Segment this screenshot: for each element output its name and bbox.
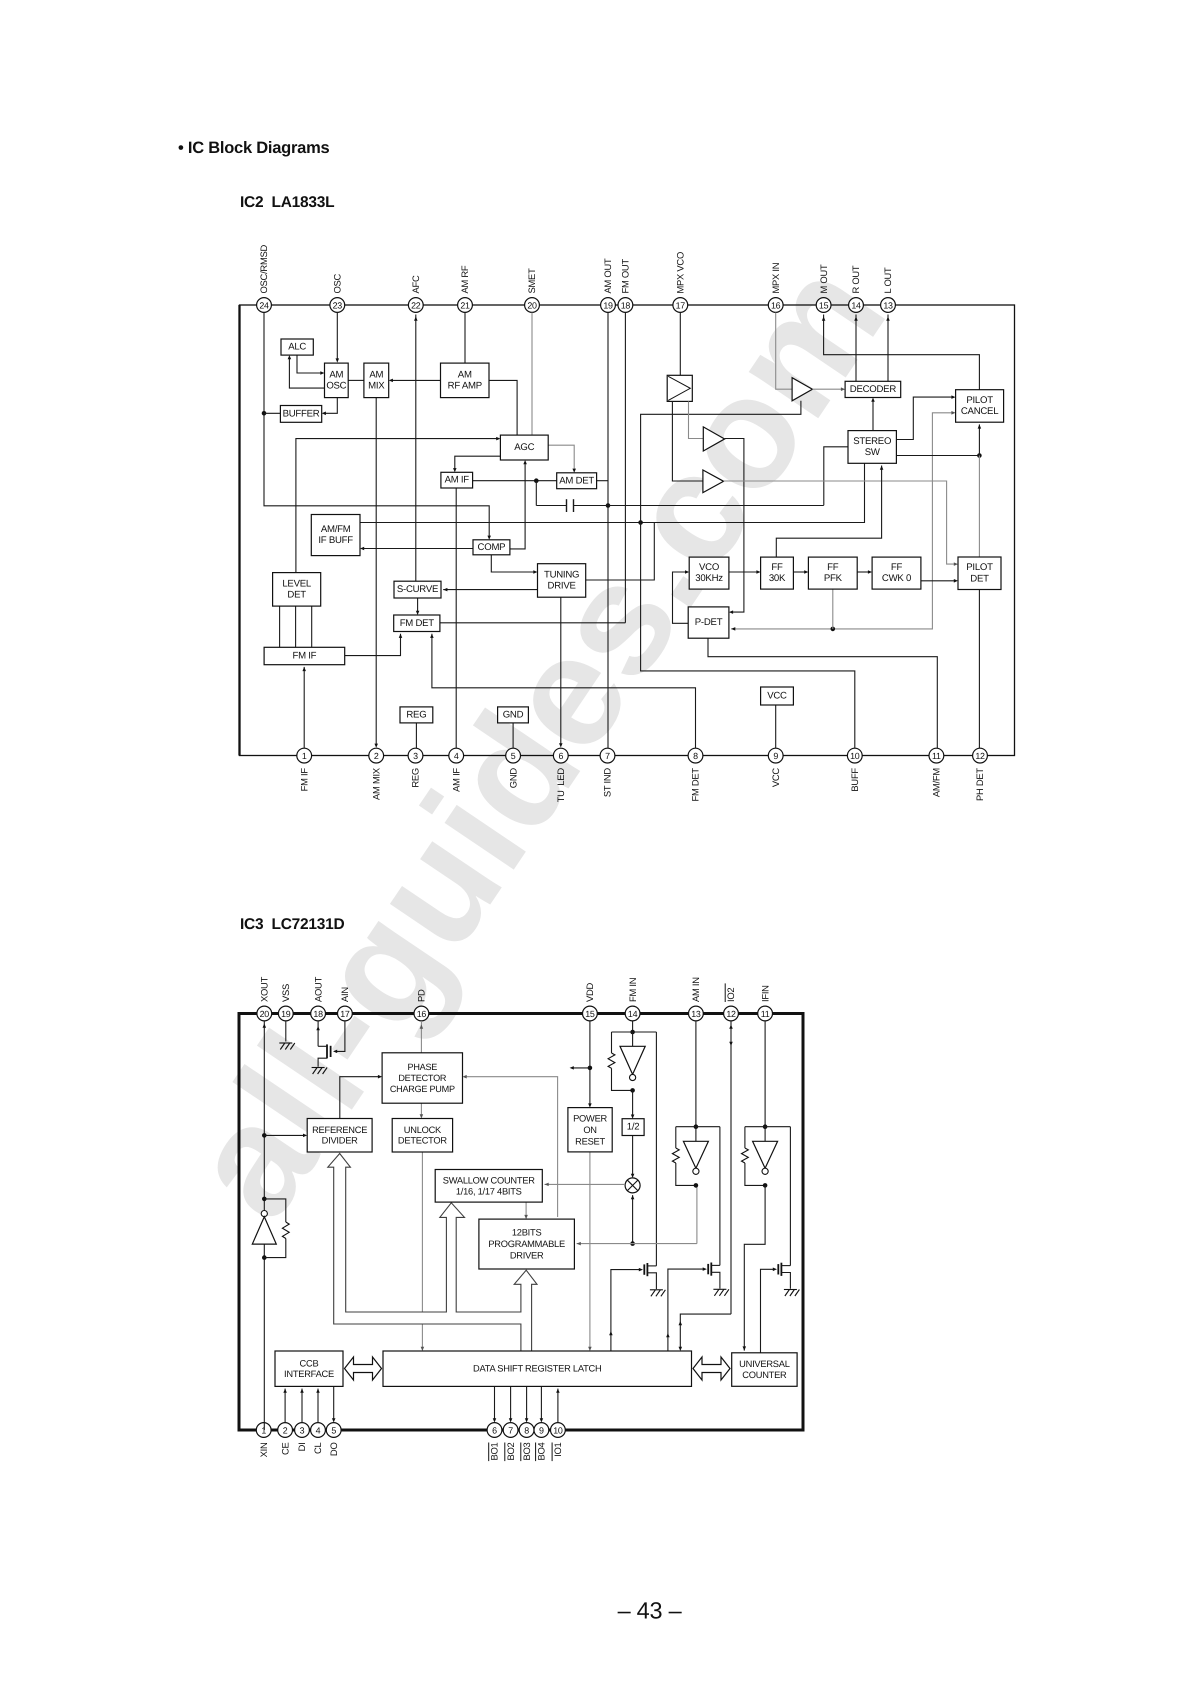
svg-text:CE: CE: [279, 1443, 290, 1456]
IC3 pin 15 VDD: [583, 982, 598, 1020]
IC3 pin 1 XIN: [256, 1423, 271, 1458]
wire P-DET to VCO feedback: [673, 572, 689, 623]
svg-text:PFK: PFK: [824, 573, 843, 584]
block FF CWK 0: [872, 557, 921, 589]
svg-text:R OUT: R OUT: [850, 265, 861, 293]
svg-text:FM IF: FM IF: [293, 651, 317, 662]
svg-text:19: 19: [281, 1009, 291, 1019]
FMIN input resistor R2: [611, 1032, 613, 1053]
wire S-CURVE to FM DET: [417, 598, 419, 613]
wire to REFERENCE DIVIDER: [264, 1134, 305, 1136]
svg-text:17: 17: [340, 1009, 350, 1019]
svg-text:CWK 0: CWK 0: [882, 573, 911, 584]
IC2 pin 17 MPX VCO: [673, 252, 688, 312]
block SWALLOW COUNTER: [435, 1170, 542, 1203]
IC3 pin 17 AIN: [338, 987, 353, 1021]
IC3 pin 6 BO1: [487, 1423, 502, 1462]
svg-text:20: 20: [260, 1009, 270, 1019]
svg-text:1/16, 1/17 4BITS: 1/16, 1/17 4BITS: [456, 1186, 522, 1196]
svg-text:FM IN: FM IN: [627, 978, 638, 1002]
block AM RF AMP: [441, 363, 490, 398]
svg-text:GND: GND: [503, 709, 524, 720]
svg-text:VCC: VCC: [770, 768, 781, 788]
svg-text:GND: GND: [507, 768, 518, 789]
svg-text:BO2: BO2: [505, 1442, 516, 1460]
svg-text:FF: FF: [827, 562, 839, 573]
IC3 pin 12 IO2: [724, 983, 739, 1020]
capacitor C on composite rail: [536, 505, 566, 507]
wire pin16 PD to PHASE DETECTOR: [420, 1021, 422, 1053]
svg-text:PROGRAMMABLE: PROGRAMMABLE: [488, 1239, 565, 1249]
wire DECODER to pin14 R OUT: [855, 315, 857, 382]
svg-text:OSC: OSC: [326, 380, 346, 391]
svg-text:AM DET: AM DET: [559, 475, 594, 486]
svg-text:– 43 –: – 43 –: [618, 1598, 683, 1624]
IC2 pin 21 AM RF: [458, 265, 473, 312]
svg-text:14: 14: [628, 1009, 638, 1019]
wire pin17 to MPX VCO: [679, 313, 681, 376]
svg-text:9: 9: [773, 751, 778, 761]
wire UNLOCK DET down to DATA SHIFT: [421, 1152, 423, 1349]
wire UC to FET T3 gate: [761, 1269, 775, 1353]
svg-text:9: 9: [539, 1426, 544, 1436]
block FF PFK: [808, 557, 857, 589]
svg-text:PHASE: PHASE: [408, 1062, 438, 1072]
AMIN resistor R3: [675, 1127, 677, 1148]
IC2 pin 16 MPX IN: [768, 263, 783, 313]
block REFERENCE DIVIDER: [307, 1119, 372, 1153]
svg-text:XIN: XIN: [258, 1443, 269, 1458]
block 1/2 divider: [622, 1119, 644, 1136]
svg-text:FM OUT: FM OUT: [620, 259, 631, 294]
wire PHASE DET feedback from 12BITS (grey): [465, 1077, 558, 1217]
IC3 pin 5 DO: [326, 1423, 341, 1456]
wire PHASE DET to UNLOCK DET (grey): [420, 1103, 422, 1116]
wire REG to pin3: [415, 723, 417, 748]
block FM IF: [264, 647, 345, 664]
svg-text:IC2 LA1833L: IC2 LA1833L: [240, 194, 334, 211]
svg-text:2: 2: [283, 1426, 288, 1436]
block FM DET: [394, 615, 440, 632]
svg-text:COUNTER: COUNTER: [742, 1370, 787, 1380]
pin12 IO2 line: [730, 1021, 732, 1314]
svg-text:30KHz: 30KHz: [695, 573, 723, 584]
wire to 1/2 divider: [632, 1090, 634, 1116]
wire A2 composite to PILOT DET (grey): [724, 481, 956, 564]
wire AM IF to pin4: [455, 488, 457, 748]
block PILOT CANCEL: [956, 390, 1004, 423]
svg-text:FM DET: FM DET: [400, 618, 435, 629]
svg-text:8: 8: [524, 1426, 529, 1436]
IC2 pin 20 SMET: [525, 268, 540, 312]
wire AM OSC to BUFFER: [324, 398, 337, 414]
svg-text:AM IN: AM IN: [690, 977, 701, 1002]
block AM MIX: [364, 363, 389, 398]
FET T3: [773, 1268, 777, 1272]
svg-text:13: 13: [691, 1009, 701, 1019]
block LEVEL DET: [273, 573, 321, 607]
IC3 pin 14 FM IN: [625, 978, 640, 1021]
wire TUNING DRIVE to S-CURVE: [443, 589, 537, 591]
block PHASE DETECTOR CHARGE PUMP: [382, 1053, 462, 1103]
wire pin14 FMIN network: [632, 1021, 634, 1032]
buffer amp A2: [703, 470, 724, 493]
svg-text:DRIVE: DRIVE: [548, 581, 576, 592]
svg-text:15: 15: [585, 1009, 595, 1019]
wire LEVEL DET - FM IF links: [279, 606, 281, 647]
svg-text:AM RF: AM RF: [459, 265, 470, 293]
block AM IF: [441, 472, 473, 488]
ground AIN FET: [312, 1068, 328, 1075]
svg-text:15: 15: [819, 301, 829, 311]
block DATA SHIFT REGISTER LATCH: [383, 1351, 692, 1386]
block CCB INTERFACE: [275, 1351, 343, 1386]
svg-text:ST IND: ST IND: [602, 768, 613, 798]
svg-text:OSC/RMSD: OSC/RMSD: [258, 244, 269, 293]
wire LEVEL DET to AGC: [296, 439, 498, 573]
wire FM IF to FM DET: [345, 634, 401, 656]
FMIN inverter A4: [632, 1032, 634, 1046]
IC2 pin 4 AM IF: [449, 748, 464, 792]
svg-text:CCB: CCB: [300, 1358, 319, 1368]
wire pin8 to FM DET: [432, 634, 696, 749]
svg-text:LEVEL: LEVEL: [282, 578, 312, 589]
svg-text:6: 6: [558, 751, 563, 761]
IC3 pin 2 CE: [278, 1423, 293, 1455]
svg-text:5: 5: [331, 1426, 336, 1436]
block P-DET: [688, 607, 729, 638]
IC3 pin 10 IO1: [551, 1423, 566, 1462]
svg-text:REFERENCE: REFERENCE: [312, 1125, 367, 1135]
wire pin21 to AM RF AMP: [464, 313, 466, 364]
svg-text:DET: DET: [970, 573, 989, 584]
svg-text:VSS: VSS: [280, 984, 291, 1002]
IC2 pin 15 M OUT: [816, 264, 831, 312]
IC3 pin 20 XOUT: [257, 976, 272, 1020]
pin13 AMIN network: [695, 1021, 697, 1127]
mixer M1: [625, 1178, 640, 1193]
wire VCC to pin9: [775, 705, 777, 748]
pin5 DO output: [333, 1386, 335, 1420]
IC3 pin 19 VSS: [278, 984, 293, 1021]
wire pin1 to FM IF: [303, 667, 305, 748]
osc feedback resistor R1: [264, 1199, 286, 1222]
wire AM IF to AM DET rail: [473, 480, 557, 482]
svg-text:SMET: SMET: [526, 268, 537, 294]
svg-text:AM: AM: [458, 369, 472, 380]
wire pin20 SMET to AGC: [531, 313, 533, 436]
wire MPX VCO to buffer2: [672, 401, 703, 481]
svg-text:IO2: IO2: [725, 988, 736, 1002]
IFIN right branch to FET T3: [789, 1127, 791, 1266]
svg-text:AM/FM: AM/FM: [321, 524, 351, 535]
svg-text:7: 7: [605, 751, 610, 761]
svg-text:TUNING: TUNING: [544, 569, 579, 580]
MPX VCO oscillator box U-osc: [667, 375, 692, 401]
wire AMIN buffer down to rail: [696, 1185, 698, 1243]
svg-text:INTERFACE: INTERFACE: [284, 1369, 334, 1379]
IC2 pin 6 TU LED: [553, 748, 568, 802]
svg-text:AM: AM: [329, 369, 343, 380]
AMIN inverter A5: [695, 1127, 697, 1142]
svg-text:5: 5: [511, 751, 516, 761]
svg-text:DECODER: DECODER: [850, 384, 897, 395]
block PILOT DET: [958, 557, 1001, 590]
crystal inverter Q-osc: [261, 1211, 267, 1217]
svg-text:8: 8: [693, 751, 698, 761]
svg-text:PILOT: PILOT: [966, 395, 993, 406]
wire 1/2 to mixer: [632, 1136, 634, 1176]
svg-text:UNIVERSAL: UNIVERSAL: [739, 1359, 790, 1369]
svg-text:COMP: COMP: [478, 542, 506, 553]
svg-text:BUFFER: BUFFER: [283, 408, 320, 419]
wire COMP to AGC: [510, 462, 525, 549]
svg-text:IO1: IO1: [552, 1442, 563, 1456]
wire AM RF AMP to AGC: [489, 380, 517, 435]
svg-text:BO1: BO1: [489, 1442, 500, 1460]
wire TUNING DRIVE to pin6 TU LED: [560, 597, 562, 745]
svg-text:24: 24: [259, 301, 269, 311]
IC2 pin 8 FM DET: [688, 748, 703, 801]
svg-text:7: 7: [508, 1426, 513, 1436]
wire PILOT CANCEL to pin15 M OUT: [824, 315, 980, 390]
IC2 pin 18 FM OUT: [618, 259, 633, 313]
wire STEREO SW to PILOT CANCEL input1: [896, 397, 953, 439]
svg-text:3: 3: [413, 751, 418, 761]
block COMP: [473, 540, 510, 555]
wire pin22 AFC from S-CURVE: [415, 315, 417, 582]
wire ALC to AM OSC: [297, 355, 322, 373]
block UNIVERSAL COUNTER: [732, 1353, 797, 1387]
IC3 pin 9 BO4: [534, 1423, 549, 1462]
wire COMP to TUNING DRIVE: [491, 555, 535, 572]
wire mixer to SWALLOW COUNTER: [545, 1183, 626, 1185]
wire COMP to AM/FM IF BUFF: [362, 548, 510, 550]
svg-text:11: 11: [932, 751, 941, 761]
wire pin19 / AM DET / cap rail / pin7 vertical: [607, 313, 609, 749]
wire SWALLOW to 12BITS: [525, 1202, 527, 1217]
wire pin2 to AM MIX: [375, 398, 377, 746]
svg-text:IF BUFF: IF BUFF: [318, 535, 353, 546]
svg-text:AOUT: AOUT: [312, 976, 323, 1002]
svg-text:16: 16: [771, 301, 781, 311]
block FF 30K: [761, 557, 794, 589]
svg-text:16: 16: [417, 1009, 427, 1019]
wire pin19 VSS to ground: [285, 1021, 287, 1042]
svg-text:CL: CL: [312, 1442, 323, 1454]
IC2 pin 5 GND: [506, 748, 521, 788]
IC2 pin 10 BUFF: [847, 748, 862, 791]
IFIN resistor R4: [744, 1127, 746, 1148]
hollow bus arrows to REFERENCE DIVIDER / SWALLOW COUNTER / 12BITS DRIVER: [328, 1154, 537, 1352]
svg-text:10: 10: [553, 1426, 563, 1436]
svg-text:13: 13: [883, 301, 893, 311]
wire FM DET to pin18 FM OUT: [440, 622, 626, 624]
svg-text:M OUT: M OUT: [818, 264, 829, 293]
wire REF DIVIDER up to PHASE DET: [340, 1077, 380, 1119]
block UNLOCK DETECTOR: [392, 1119, 452, 1153]
IC2 pin 2 AM MIX: [369, 748, 384, 800]
svg-text:OSC: OSC: [332, 273, 343, 293]
block STEREO SW: [848, 431, 896, 464]
svg-text:FF: FF: [891, 562, 903, 573]
svg-text:14: 14: [851, 301, 861, 311]
IFIN inverter A6: [764, 1127, 766, 1142]
IC3 pin 8 BO3: [519, 1423, 534, 1462]
block POWER ON RESET: [568, 1108, 612, 1152]
IC2 pin 13 L OUT: [881, 267, 896, 312]
IC3 pin 13 AM IN: [689, 977, 704, 1021]
svg-text:MIX: MIX: [368, 380, 385, 391]
svg-text:POWER: POWER: [573, 1113, 607, 1123]
IC3 pin 11 IFIN: [758, 985, 773, 1021]
pin10 IO1: [557, 1389, 559, 1423]
wire POWER ON RESET to DATA SHIFT: [589, 1152, 591, 1349]
svg-text:AM OUT: AM OUT: [602, 258, 613, 293]
block 12BITS PROGRAMMABLE DRIVER: [479, 1219, 575, 1269]
wire pin16 MPX IN to decoder buffer: [776, 313, 792, 390]
svg-text:AM IF: AM IF: [445, 475, 470, 486]
svg-text:AM/FM: AM/FM: [931, 768, 942, 797]
wire MPX VCO to buffer1: [689, 401, 704, 438]
svg-text:12BITS: 12BITS: [512, 1228, 542, 1238]
svg-text:17: 17: [676, 301, 686, 311]
svg-text:AFC: AFC: [410, 275, 421, 293]
wire P-DET output to pin11 AM/FM: [708, 638, 937, 748]
svg-text:4: 4: [454, 751, 459, 761]
svg-text:MPX IN: MPX IN: [770, 263, 781, 294]
ground pin19: [279, 1043, 295, 1050]
svg-text:10: 10: [850, 751, 860, 761]
svg-text:S-CURVE: S-CURVE: [397, 584, 438, 595]
svg-text:BO3: BO3: [521, 1442, 532, 1460]
wire FF PPK down to grey rail: [832, 589, 834, 629]
block REG: [400, 707, 433, 723]
wire pin18 FM OUT vertical: [624, 313, 626, 623]
wire A1 to P-DET: [725, 439, 744, 613]
svg-text:4: 4: [316, 1426, 321, 1436]
svg-text:IFIN: IFIN: [759, 985, 770, 1002]
wire P-DET/FF PPK to PILOT CANCEL input2 (grey): [731, 413, 953, 629]
svg-text:6: 6: [492, 1426, 497, 1436]
svg-text:CHARGE PUMP: CHARGE PUMP: [390, 1084, 455, 1094]
svg-text:XOUT: XOUT: [259, 976, 270, 1002]
wire pin24 to BUFFER junction and y506 rail into COMP: [264, 313, 489, 538]
IC2 pin 23 OSC: [330, 273, 345, 312]
FMIN right branch to FET T1: [655, 1032, 657, 1266]
svg-text:• IC Block Diagrams: • IC Block Diagrams: [178, 139, 329, 157]
wire AM OSC to AM MIX: [348, 379, 364, 381]
svg-text:FM IF: FM IF: [298, 768, 309, 792]
svg-text:18: 18: [313, 1009, 323, 1019]
wire pin20 XOUT crystal line: [263, 1021, 265, 1430]
svg-text:FM DET: FM DET: [690, 768, 701, 802]
buffer amp A1: [703, 427, 724, 451]
wire pin15 VDD: [589, 1021, 591, 1105]
svg-text:PILOT: PILOT: [966, 562, 993, 573]
wire junction down to capacitor rail: [535, 481, 537, 506]
IC2 pin 19 AM OUT: [601, 258, 616, 312]
IC2 pin 11 AM/FM: [929, 748, 944, 797]
block DECODER: [845, 381, 901, 397]
wire STEREO SW out to PILOT CANCEL bottom / PILOT DET: [896, 455, 979, 457]
AIN FET Q1: [335, 1021, 345, 1051]
svg-text:18: 18: [621, 301, 631, 311]
IC2 pin 9 VCC: [768, 748, 783, 787]
svg-text:REG: REG: [406, 709, 426, 720]
IC3 pin 4 CL: [311, 1423, 326, 1454]
IC2 pin 1 FM IF: [297, 748, 312, 791]
wire AGC to AM DET (grey): [548, 445, 574, 470]
svg-text:CANCEL: CANCEL: [961, 406, 999, 417]
svg-text:1: 1: [302, 751, 307, 761]
block VCC: [761, 687, 794, 705]
block AGC: [500, 435, 548, 460]
svg-text:DETECTOR: DETECTOR: [398, 1073, 447, 1083]
wire DATA SHIFT to T1 gate: [611, 1270, 641, 1351]
svg-text:VDD: VDD: [584, 982, 595, 1002]
wire IFIN buffer to UNIVERSAL COUNTER: [744, 1185, 765, 1350]
IC2 pin 24 OSC/RMSD: [257, 244, 272, 312]
wire 12BITS input rail: [577, 1243, 697, 1245]
block S-CURVE: [394, 581, 441, 598]
svg-text:DIVIDER: DIVIDER: [322, 1136, 358, 1146]
block AM DET: [557, 473, 597, 489]
svg-text:VCO: VCO: [699, 562, 719, 573]
svg-text:BO4: BO4: [536, 1442, 547, 1460]
IC2 pin 22 AFC: [408, 275, 423, 312]
svg-text:DATA SHIFT REGISTER LATCH: DATA SHIFT REGISTER LATCH: [473, 1364, 601, 1374]
wire AM OSC to ALC feedback: [289, 357, 324, 388]
IC3 pin 16 PD: [414, 989, 429, 1021]
svg-text:DRIVER: DRIVER: [510, 1251, 544, 1261]
buffer amp A3 to DECODER: [792, 378, 812, 401]
IC3 LC72131D outer box: [239, 1014, 803, 1431]
svg-text:MPX VCO: MPX VCO: [675, 252, 686, 294]
FET T1: [639, 1268, 643, 1272]
svg-text:SWALLOW COUNTER: SWALLOW COUNTER: [443, 1175, 536, 1185]
svg-text:AM: AM: [369, 369, 383, 380]
svg-text:ON: ON: [583, 1125, 596, 1135]
block AM OSC: [325, 363, 349, 398]
IC2 LA1833L outer box: [240, 305, 1015, 756]
wire decoder-buffer feedback: [641, 401, 801, 523]
wire STEREO SW to DECODER: [872, 400, 874, 431]
block AM/FM IF BUFF: [311, 515, 360, 556]
svg-text:REG: REG: [410, 768, 421, 788]
svg-text:22: 22: [411, 301, 421, 311]
wire VCO-30KHz chain arrows: [729, 571, 759, 573]
wire AM RF AMP to AM MIX: [391, 379, 441, 381]
svg-text:PD: PD: [416, 989, 427, 1002]
svg-text:DETECTOR: DETECTOR: [398, 1136, 448, 1146]
svg-text:SW: SW: [865, 447, 881, 458]
block GND: [498, 707, 529, 723]
svg-text:30K: 30K: [769, 573, 786, 584]
svg-text:DET: DET: [287, 589, 306, 600]
wire FF30K to STEREO SW: [776, 466, 881, 558]
wire AM/FM IF BUFF output rail y522: [360, 463, 865, 522]
IC3 pin 3 DI: [295, 1423, 310, 1452]
bus arrow CCB-DATA SHIFT: [345, 1357, 382, 1380]
block BUFFER: [280, 406, 321, 423]
block ALC: [281, 339, 313, 355]
wire GND to pin5: [512, 723, 514, 748]
svg-text:AM IF: AM IF: [450, 768, 461, 792]
svg-text:BUFF: BUFF: [849, 768, 860, 792]
wire rail to pin10 BUFF: [641, 523, 855, 749]
wire PILOT DET to pin12: [978, 590, 980, 749]
